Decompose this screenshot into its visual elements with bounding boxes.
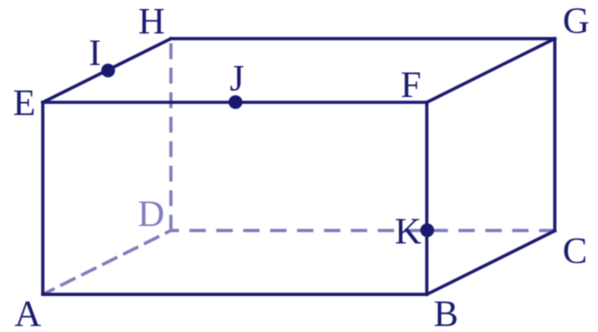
svg-text:J: J (230, 59, 244, 100)
node K (dot on edge B-F) (420, 223, 434, 237)
svg-text:K: K (395, 211, 422, 252)
svg-text:D: D (138, 194, 165, 235)
node I (dot on edge E-H) (101, 64, 115, 78)
wire: edge B-C (427, 231, 555, 295)
wire: edge H-G (171, 37, 555, 40)
wire: edge E-H (43, 39, 171, 103)
wire: edge E-F (43, 101, 427, 104)
svg-text:B: B (434, 294, 459, 332)
wire: edge G-C (553, 39, 556, 231)
wire: edge A-B (43, 293, 427, 296)
svg-text:G: G (563, 1, 590, 42)
svg-text:H: H (138, 2, 165, 43)
svg-text:E: E (13, 83, 36, 124)
node J (dot on edge E-F) (229, 95, 243, 109)
wire: dashed edge D-H (hidden) (169, 39, 172, 231)
svg-text:I: I (89, 33, 101, 74)
svg-text:A: A (15, 294, 42, 332)
wire: edge B-F (425, 102, 428, 294)
wire: dashed edge D-C (hidden) (171, 229, 555, 232)
wire: edge F-G (427, 39, 555, 103)
wire: edge A-E (41, 102, 44, 294)
svg-text:C: C (563, 231, 588, 272)
svg-text:F: F (401, 65, 422, 106)
wire: dashed edge A-D (hidden) (43, 231, 171, 295)
